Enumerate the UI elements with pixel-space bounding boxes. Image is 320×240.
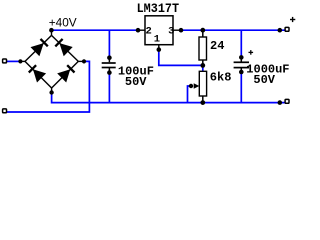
junction dot: R1/R2 junction [200,63,205,68]
wire: LM317 pin 1 (adjust) down and right to resistor junction [159,50,203,66]
junction dot: bridge top (+40V node) [49,28,54,33]
wire: 1000uF bottom lead to 0V rail [240,72,242,103]
bridge stub: top vertex to +40V node [51,30,53,36]
capacitor C1 100uF: top plate [102,62,116,64]
trimpot R2 6k8: bottom lead [202,96,204,102]
capacitor C1 100uF: top lead [108,58,110,63]
regulator U1 LM317T: body box [145,16,173,45]
U1 pin 3 dot [179,28,184,33]
wire: top rail from LM317 pin 3 to + output terminal [181,29,285,31]
wire: 0V negative rail from bridge bottom to - output terminal [52,93,285,103]
diode D3 bottom-left arm (anode 0V, cathode left node) [29,65,46,82]
diode D1 top-left arm (anode left node, cathode +40V) [31,39,48,56]
U1 pin 2 dot [136,28,141,33]
capacitor C1 100uF: bottom lead [108,68,110,73]
svg-text:3: 3 [168,26,174,38]
U1 pin 1 lead (adjust) [158,45,160,50]
polarity + mark at output terminal [290,17,295,22]
trimpot R2 6k8: wiper arrow [194,83,200,89]
bridge rectifier: top-left arm lead [25,35,52,61]
U1 pin 2 lead (input) [138,29,145,31]
junction dot: bridge right AC node [82,59,86,63]
bridge stub: bottom vertex to 0V node [51,88,53,93]
U1 pin 1 dot [157,47,162,52]
wire: +40V top rail from bridge to LM317 pin 2 [51,29,138,31]
capacitor C2 1000uF: bottom lead [240,68,242,72]
terminal: AC input lower [3,109,7,113]
terminal: - output [285,99,289,103]
junction dot: bridge bottom 0V node [49,90,53,94]
polarity + mark for C2 [249,50,254,55]
capacitor C2 1000uF: bottom pin dot [239,70,244,75]
U1 pin 3 lead (output) [173,29,181,31]
svg-text:50V: 50V [253,73,275,87]
wire: 100uF top lead drop from rail [108,30,110,58]
capacitor C1 100uF: top pin dot [107,55,112,60]
diode D4 bottom-right arm (anode 0V, cathode right node) [57,65,74,82]
wire: AC neutral rail from bottom-left terminal up to bridge right node [7,61,89,112]
diode D2 top-right arm (anode right node, cathode +40V) [55,39,72,56]
svg-text:+40V: +40V [49,16,77,30]
capacitor C2 1000uF: top lead [240,57,242,62]
capacitor C1 100uF: bottom pin dot [107,70,112,75]
junction dot: + output node [278,28,283,33]
wire: junction to 6k8 top [202,65,204,71]
bridge rectifier: bottom-left arm lead [25,61,52,88]
bridge stub: left vertex to AC node [20,60,25,62]
svg-text:1: 1 [154,33,160,45]
resistor R1 24: top lead [202,30,204,37]
wire: AC live input to bridge left node [7,60,21,62]
capacitor C2 1000uF: top plate [234,61,249,63]
junction dot: - output node [278,100,283,105]
terminal: + output [285,27,289,31]
trimpot R2 6k8: body [199,71,206,96]
trimpot R2 6k8: wiper dot [189,84,193,88]
junction dot: 6k8 bottom on 0V rail [200,100,205,105]
resistor R1 24: bottom lead [202,60,204,65]
bridge rectifier: top-right arm lead [52,35,79,61]
bridge rectifier: bottom-right arm lead [52,61,79,88]
wire: 1000uF top lead drop from rail [240,30,242,57]
svg-text:LM317T: LM317T [137,1,180,16]
wire: 100uF bottom lead to 0V rail [108,72,110,102]
bridge stub: right vertex to AC node [78,60,84,62]
capacitor C1 100uF: bottom plate [102,67,116,69]
svg-text:24: 24 [210,39,224,53]
svg-text:2: 2 [146,26,152,38]
capacitor C2 1000uF: top pin dot [239,55,244,60]
junction dot: bridge left AC node [18,59,22,63]
svg-text:6k8: 6k8 [210,70,232,84]
resistor R1 24: top dot [200,28,205,33]
wire: 6k8 wiper arm to 0V rail [188,86,192,103]
capacitor C2 1000uF: bottom plate [234,67,249,69]
resistor R1 24: body [199,37,207,60]
terminal: AC input upper [3,59,7,63]
svg-text:50V: 50V [125,75,147,89]
